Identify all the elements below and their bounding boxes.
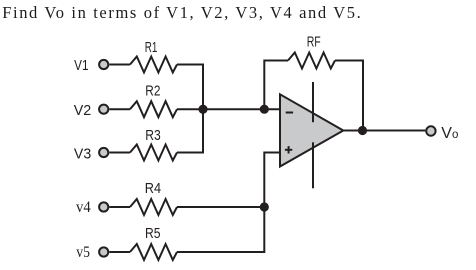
op-amp negative supply line xyxy=(312,142,314,188)
resistor RF xyxy=(288,53,335,69)
node D output dot xyxy=(358,126,367,135)
wire V2 to R2 xyxy=(109,108,130,110)
op-amp positive supply line xyxy=(312,82,314,122)
terminal v4 xyxy=(99,202,108,211)
wire op-amp output xyxy=(343,130,425,132)
wire noninverting input leg xyxy=(264,153,280,253)
wire R2 to inverting input xyxy=(177,108,280,110)
wire R3 to bus xyxy=(177,152,203,154)
resistor R2 xyxy=(130,101,177,117)
svg-text:R1: R1 xyxy=(145,39,158,56)
wire v4 to R4 xyxy=(109,206,130,208)
svg-text:V3: V3 xyxy=(74,145,91,162)
svg-text:RF: RF xyxy=(307,34,321,51)
title text xyxy=(2,3,362,23)
wire RF right leg xyxy=(335,61,363,131)
svg-text:R3: R3 xyxy=(145,127,161,144)
svg-text:Vo: Vo xyxy=(441,125,458,142)
svg-text:R4: R4 xyxy=(145,180,161,197)
wire bus vertical xyxy=(202,64,204,154)
terminal V1 xyxy=(99,60,108,69)
terminal V3 xyxy=(99,148,108,157)
terminal v5 xyxy=(99,247,108,256)
resistor R1 xyxy=(130,57,177,73)
terminal Vo xyxy=(426,126,435,135)
svg-text:v5: v5 xyxy=(76,244,90,261)
node A summing junction dot xyxy=(198,105,207,114)
svg-text:V2: V2 xyxy=(74,102,92,119)
wire V1 to R1 xyxy=(109,64,130,66)
svg-text:R5: R5 xyxy=(145,225,161,242)
svg-text:R2: R2 xyxy=(145,83,160,100)
resistor R3 xyxy=(130,145,177,161)
svg-text:v4: v4 xyxy=(76,199,91,216)
op-amp U1 xyxy=(280,94,343,166)
wire RF left leg xyxy=(264,61,288,110)
wire R1 to bus xyxy=(177,64,203,66)
svg-text:V1: V1 xyxy=(74,57,88,74)
op-amp plus sign xyxy=(285,146,292,153)
resistor R4 xyxy=(130,199,177,215)
wire R4 to node C xyxy=(177,206,264,208)
wire R5 to node C leg xyxy=(177,251,265,253)
node C R4/R5 junction dot xyxy=(260,202,269,211)
wire V3 to R3 xyxy=(109,152,130,154)
op-amp minus sign xyxy=(286,112,293,114)
resistor R5 xyxy=(130,244,177,260)
wire v5 to R5 xyxy=(109,251,130,253)
terminal V2 xyxy=(99,105,108,114)
node B RF tap dot xyxy=(260,105,269,114)
